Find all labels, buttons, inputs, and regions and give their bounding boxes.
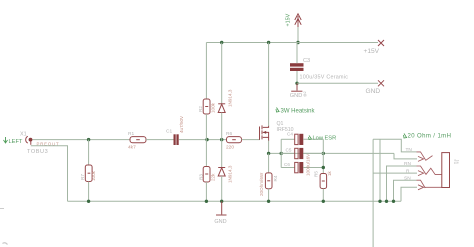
resistor R2	[203, 43, 210, 140]
label 20 Ohm / 1mH	[404, 134, 452, 140]
wire X1 to R1	[33, 139, 131, 141]
faint corner artifact	[3, 243, 8, 245]
svg-text:R4: R4	[273, 175, 278, 181]
wire C3 top	[296, 43, 298, 64]
svg-text:4k7: 4k7	[128, 145, 136, 151]
node junction C3/GND wire	[295, 82, 298, 85]
svg-text:RN: RN	[404, 161, 411, 167]
svg-text:20 Ohm / 1mH: 20 Ohm / 1mH	[408, 134, 452, 140]
node junction SN/bus	[392, 200, 395, 203]
svg-text:GND: GND	[366, 88, 381, 95]
svg-text:+15V: +15V	[364, 48, 380, 55]
capacitor C3	[290, 63, 304, 71]
wire cap right bus vertical	[322, 139, 324, 167]
svg-text:C3: C3	[303, 58, 310, 64]
wire R from off-page	[372, 139, 374, 247]
svg-text:Low ESR: Low ESR	[313, 136, 337, 142]
node junction R7 top	[87, 138, 90, 141]
svg-text:R1: R1	[128, 131, 134, 137]
svg-text:X1: X1	[20, 132, 27, 138]
capacitor C1	[174, 134, 179, 145]
wire +15V rail	[206, 42, 378, 44]
resistor R1	[130, 137, 146, 143]
wire Q1 source rail	[269, 152, 394, 154]
svg-text:LEFT: LEFT	[9, 139, 23, 145]
svg-text:TN: TN	[406, 147, 413, 153]
wire R6 to gate	[242, 139, 260, 141]
svg-text:100k: 100k	[91, 170, 96, 181]
node junction rail/diode D1	[220, 41, 223, 44]
wire C3 bottom to gnd junction	[296, 71, 298, 83]
jack J1 RN spring	[417, 166, 442, 175]
node junction R3 bottom	[205, 200, 208, 203]
svg-text:1000u/16V: 1000u/16V	[306, 153, 311, 176]
svg-text:R3: R3	[199, 174, 204, 180]
jack J1 S to body	[424, 186, 442, 188]
svg-text:R5: R5	[314, 171, 319, 177]
node junction D1/D2 column	[220, 138, 223, 141]
svg-text:100k: 100k	[211, 102, 216, 113]
wire RN vertical	[387, 166, 417, 201]
net stub X GND	[378, 80, 384, 86]
wire Q1 drain to rail	[268, 43, 270, 127]
wire SN vertical	[394, 180, 417, 201]
net stub X +15V	[378, 40, 384, 46]
resistor R7	[85, 140, 92, 202]
wire T signal step	[394, 153, 417, 159]
wire cap left bus vertical	[280, 139, 282, 167]
ground symbol GND under C3	[290, 83, 307, 99]
wire TN sense vertical	[379, 139, 381, 201]
wire C1 to junctions	[179, 139, 227, 141]
svg-text:+15V: +15V	[286, 13, 292, 26]
jack J1 body	[442, 153, 450, 188]
node junction RN/bus	[385, 200, 388, 203]
node junction R5 bottom	[322, 200, 325, 203]
wire X1 sleeve stub	[30, 141, 32, 145]
svg-text:20Ohm/6W: 20Ohm/6W	[259, 172, 264, 196]
resistor R4	[265, 153, 272, 201]
svg-text:3W Heatsink: 3W Heatsink	[281, 109, 316, 115]
wire Q1 source down	[268, 141, 270, 154]
svg-text:1N914,3: 1N914,3	[228, 165, 233, 183]
svg-text:J1: J1	[453, 159, 459, 165]
faint edge artifact left	[0, 208, 4, 210]
node junction cap left bus	[280, 152, 283, 155]
node junction R7 bottom	[87, 200, 90, 203]
resistor R6	[227, 137, 242, 143]
label Low ESR	[309, 136, 337, 142]
svg-text:1k: 1k	[327, 170, 332, 176]
svg-text:GND: GND	[214, 219, 226, 225]
ground bus wire	[68, 200, 402, 202]
connector X1 pin	[26, 136, 33, 143]
jack J1 pin R arrow	[418, 171, 424, 176]
node junction Q1 source / R4	[267, 152, 270, 155]
svg-text:100u/35V Ceramic: 100u/35V Ceramic	[300, 75, 349, 81]
node junction TN/bus	[378, 200, 381, 203]
wire S from bus corner	[401, 187, 417, 201]
svg-text:4u7/50V: 4u7/50V	[179, 115, 184, 133]
diode D1 1N914	[218, 43, 225, 140]
resistor R5	[320, 166, 327, 202]
node junction cap right bus	[322, 152, 325, 155]
svg-text:TOBU3: TOBU3	[27, 149, 48, 155]
svg-text:R7: R7	[80, 174, 85, 180]
svg-text:@2: @2	[303, 91, 307, 97]
svg-text:C1: C1	[166, 129, 172, 135]
capacitor C6	[281, 162, 323, 173]
capacitor C5	[281, 148, 323, 159]
svg-text:1N914,3: 1N914,3	[228, 89, 233, 107]
svg-text:C5: C5	[286, 148, 292, 153]
wire gnd rail to X	[297, 82, 378, 84]
node junction D2 bottom	[220, 200, 223, 203]
svg-text:SN: SN	[404, 175, 411, 181]
svg-text:R2: R2	[198, 106, 203, 112]
jack J1 SN spring	[417, 180, 426, 188]
resistor R3	[203, 140, 210, 202]
node junction R4 bottom	[267, 200, 270, 203]
capacitor C4	[281, 134, 323, 145]
svg-text:C4: C4	[287, 132, 293, 137]
label LEFT input flag	[4, 137, 23, 145]
jack J1 pin T arrow	[418, 156, 424, 161]
wire R1 to C1	[146, 139, 174, 141]
supply symbol +15V arrow	[295, 14, 301, 27]
jack J1 TN spring	[417, 152, 433, 160]
diode D2 1N914	[218, 140, 225, 202]
svg-text:R6: R6	[226, 131, 232, 137]
node junction rail/Q1 drain	[267, 41, 270, 44]
label 3W Heatsink	[276, 108, 316, 115]
svg-text:R: R	[406, 168, 410, 174]
node junction R2/R3 column	[205, 138, 208, 141]
svg-text:22k: 22k	[211, 173, 216, 181]
ground symbol GND bottom	[214, 201, 226, 225]
jack J1 pin S arrow	[418, 185, 424, 190]
transistor Q1 IRF510	[260, 125, 269, 141]
node junction supply/rail	[296, 41, 299, 44]
svg-text:220: 220	[226, 145, 234, 151]
svg-text:C6: C6	[284, 162, 290, 167]
svg-text:GND: GND	[290, 93, 302, 99]
wire supply arrow to rail	[297, 27, 299, 43]
